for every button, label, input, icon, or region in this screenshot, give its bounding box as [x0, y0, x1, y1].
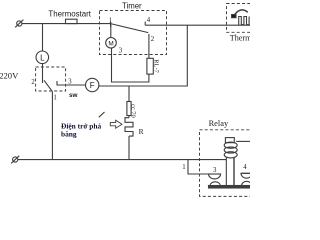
svg-text:sw: sw [69, 92, 78, 99]
svg-text:3: 3 [213, 167, 217, 174]
thermic heater comb [239, 17, 249, 26]
thermic bimetal dot [232, 15, 236, 18]
svg-text:3: 3 [68, 79, 72, 86]
relay coil cap [225, 138, 234, 143]
svg-text:F: F [90, 81, 95, 90]
resistor R defrost heater [125, 118, 133, 136]
wire branch to lamp [42, 24, 44, 51]
svg-text:L: L [40, 53, 45, 62]
terminal phase bottom-left [11, 156, 19, 164]
timer switch arm [111, 24, 149, 33]
wire top supply [22, 23, 111, 25]
wire RL-7 to M pin3 [112, 48, 149, 82]
wire pin1 to M [110, 24, 112, 38]
switch arm sw [44, 80, 52, 91]
svg-text:2: 2 [151, 36, 155, 43]
timer motor M [106, 38, 117, 49]
svg-text:băng: băng [61, 129, 77, 138]
terminal phase top-left [15, 20, 23, 28]
wire coil to right [236, 140, 250, 142]
thermic bimetal arc [235, 10, 248, 15]
wire R to bottom [128, 136, 130, 160]
contact 3 lower [210, 182, 221, 186]
contact 3 stub [57, 81, 85, 85]
fuse cc70 [127, 102, 131, 116]
svg-text:cc 70: cc 70 [130, 104, 137, 118]
wire pin2 to RL-7 [148, 41, 150, 59]
svg-text:RL-7: RL-7 [153, 59, 160, 73]
timer box [100, 11, 167, 55]
switch box sw [36, 67, 66, 91]
coil leg left [225, 157, 227, 186]
contact 4 lower [242, 181, 252, 185]
relay coil loops [224, 142, 237, 158]
coil leg right [233, 157, 235, 185]
relay armature bar [209, 186, 251, 189]
wire fuse to R [128, 116, 130, 118]
wire branch to relay contact [188, 160, 209, 174]
contact 3 upper [209, 174, 221, 179]
svg-text:Timer: Timer [122, 2, 142, 11]
wire bottom supply [18, 159, 227, 161]
wire pin4 to right [145, 24, 250, 26]
wire lamp to switch [42, 64, 44, 83]
svg-text:4: 4 [147, 17, 151, 24]
svg-text:2: 2 [31, 79, 35, 86]
timer pin4 tick [144, 22, 146, 26]
svg-text:Thermostart: Thermostart [48, 10, 91, 19]
thermic box [227, 4, 253, 33]
svg-text:M: M [108, 40, 113, 47]
fan motor F [86, 78, 99, 91]
wire to defrost resistor branch [128, 86, 130, 102]
resistor RL-7 [147, 58, 153, 74]
wire F to junction [99, 25, 188, 86]
svg-text:R: R [139, 127, 144, 136]
svg-text:1: 1 [182, 164, 185, 171]
timer pin1 tick [110, 22, 112, 27]
svg-text:1: 1 [109, 17, 112, 24]
wire sw pin1 down [51, 92, 53, 160]
contact 4 upper [241, 173, 252, 178]
svg-text:1: 1 [53, 95, 56, 102]
svg-text:Relay: Relay [209, 119, 229, 128]
thermostat Thermostart contact [66, 19, 78, 23]
lamp L [36, 51, 49, 64]
timer pin2 tick [148, 34, 150, 41]
contact 4 plate [241, 172, 250, 174]
svg-text:4: 4 [243, 164, 247, 171]
svg-text:Thermic: Thermic [230, 34, 250, 43]
annotation pointer line [99, 112, 105, 117]
annotation block arrow [110, 120, 122, 128]
svg-text:220V: 220V [0, 70, 19, 80]
relay box [200, 130, 253, 197]
svg-text:3: 3 [119, 47, 123, 54]
